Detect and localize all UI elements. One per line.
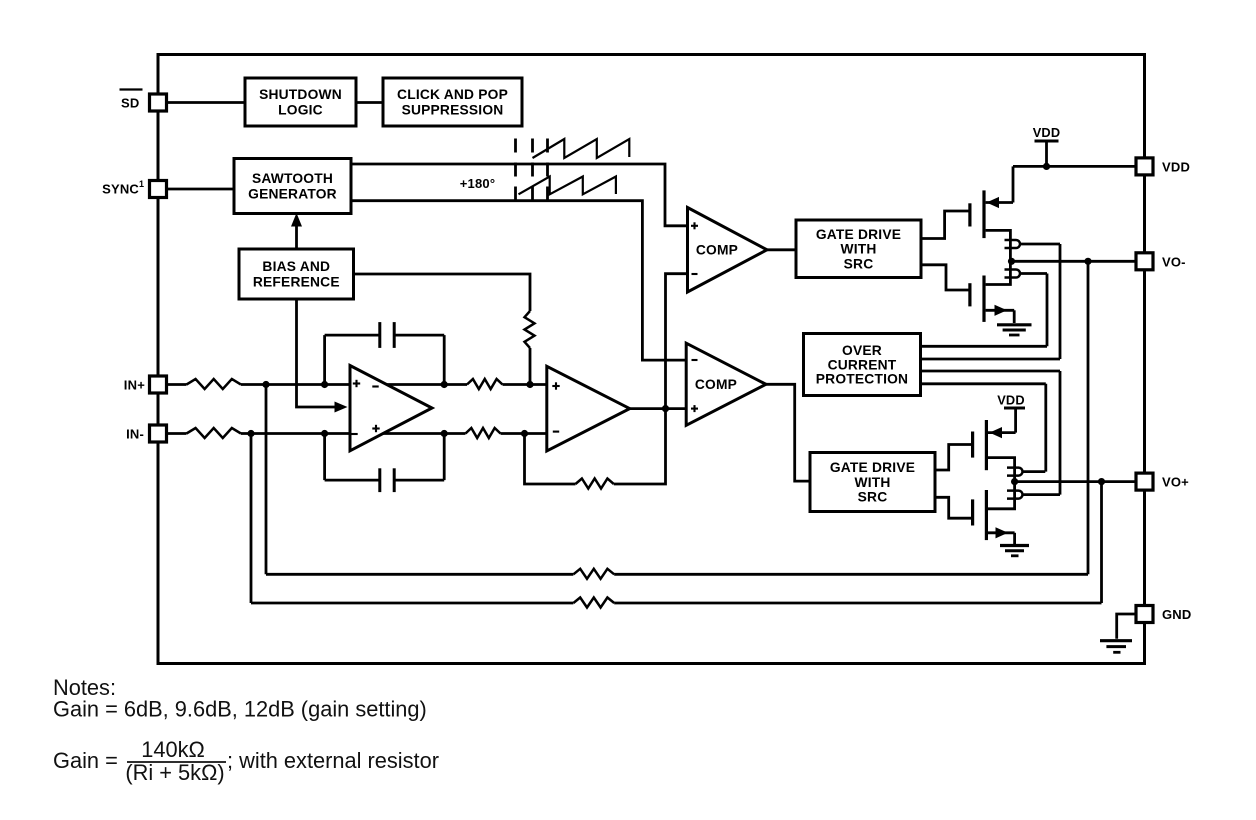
svg-text:; with external resistor: ; with external resistor (227, 748, 439, 773)
svg-text:GATE DRIVE: GATE DRIVE (830, 460, 915, 475)
svg-text:IN+: IN+ (124, 378, 145, 393)
svg-text:VDD: VDD (997, 393, 1025, 408)
svg-text:SRC: SRC (844, 256, 874, 271)
svg-text:VO-: VO- (1162, 254, 1186, 269)
svg-text:Gain =: Gain = (53, 748, 118, 773)
svg-text:GENERATOR: GENERATOR (248, 187, 337, 202)
svg-text:CLICK AND POP: CLICK AND POP (397, 87, 508, 102)
svg-text:COMP: COMP (695, 377, 737, 392)
svg-text:+180°: +180° (460, 176, 495, 191)
svg-text:CURRENT: CURRENT (828, 357, 897, 372)
svg-text:SYNC: SYNC (102, 182, 139, 197)
svg-text:SUPPRESSION: SUPPRESSION (402, 103, 504, 118)
svg-text:OVER: OVER (842, 343, 882, 358)
svg-text:140kΩ: 140kΩ (141, 737, 205, 762)
svg-text:WITH: WITH (840, 242, 876, 257)
svg-text:1: 1 (139, 179, 144, 189)
svg-text:WITH: WITH (854, 475, 890, 490)
svg-text:SAWTOOTH: SAWTOOTH (252, 171, 333, 186)
svg-text:(Ri + 5kΩ): (Ri + 5kΩ) (125, 760, 224, 785)
svg-text:REFERENCE: REFERENCE (253, 275, 340, 290)
svg-text:GND: GND (1162, 607, 1192, 622)
svg-text:IN-: IN- (126, 427, 144, 442)
svg-text:VDD: VDD (1033, 125, 1061, 140)
svg-text:Gain = 6dB, 9.6dB, 12dB (gain: Gain = 6dB, 9.6dB, 12dB (gain setting) (53, 697, 427, 722)
svg-text:PROTECTION: PROTECTION (816, 372, 908, 387)
svg-text:SRC: SRC (858, 490, 888, 505)
svg-text:VDD: VDD (1162, 159, 1190, 174)
svg-text:SD: SD (121, 96, 139, 111)
svg-text:LOGIC: LOGIC (278, 103, 323, 118)
svg-text:BIAS AND: BIAS AND (262, 259, 330, 274)
svg-text:COMP: COMP (696, 242, 738, 257)
svg-text:GATE DRIVE: GATE DRIVE (816, 227, 901, 242)
svg-text:VO+: VO+ (1162, 475, 1189, 490)
svg-text:SHUTDOWN: SHUTDOWN (259, 87, 342, 102)
